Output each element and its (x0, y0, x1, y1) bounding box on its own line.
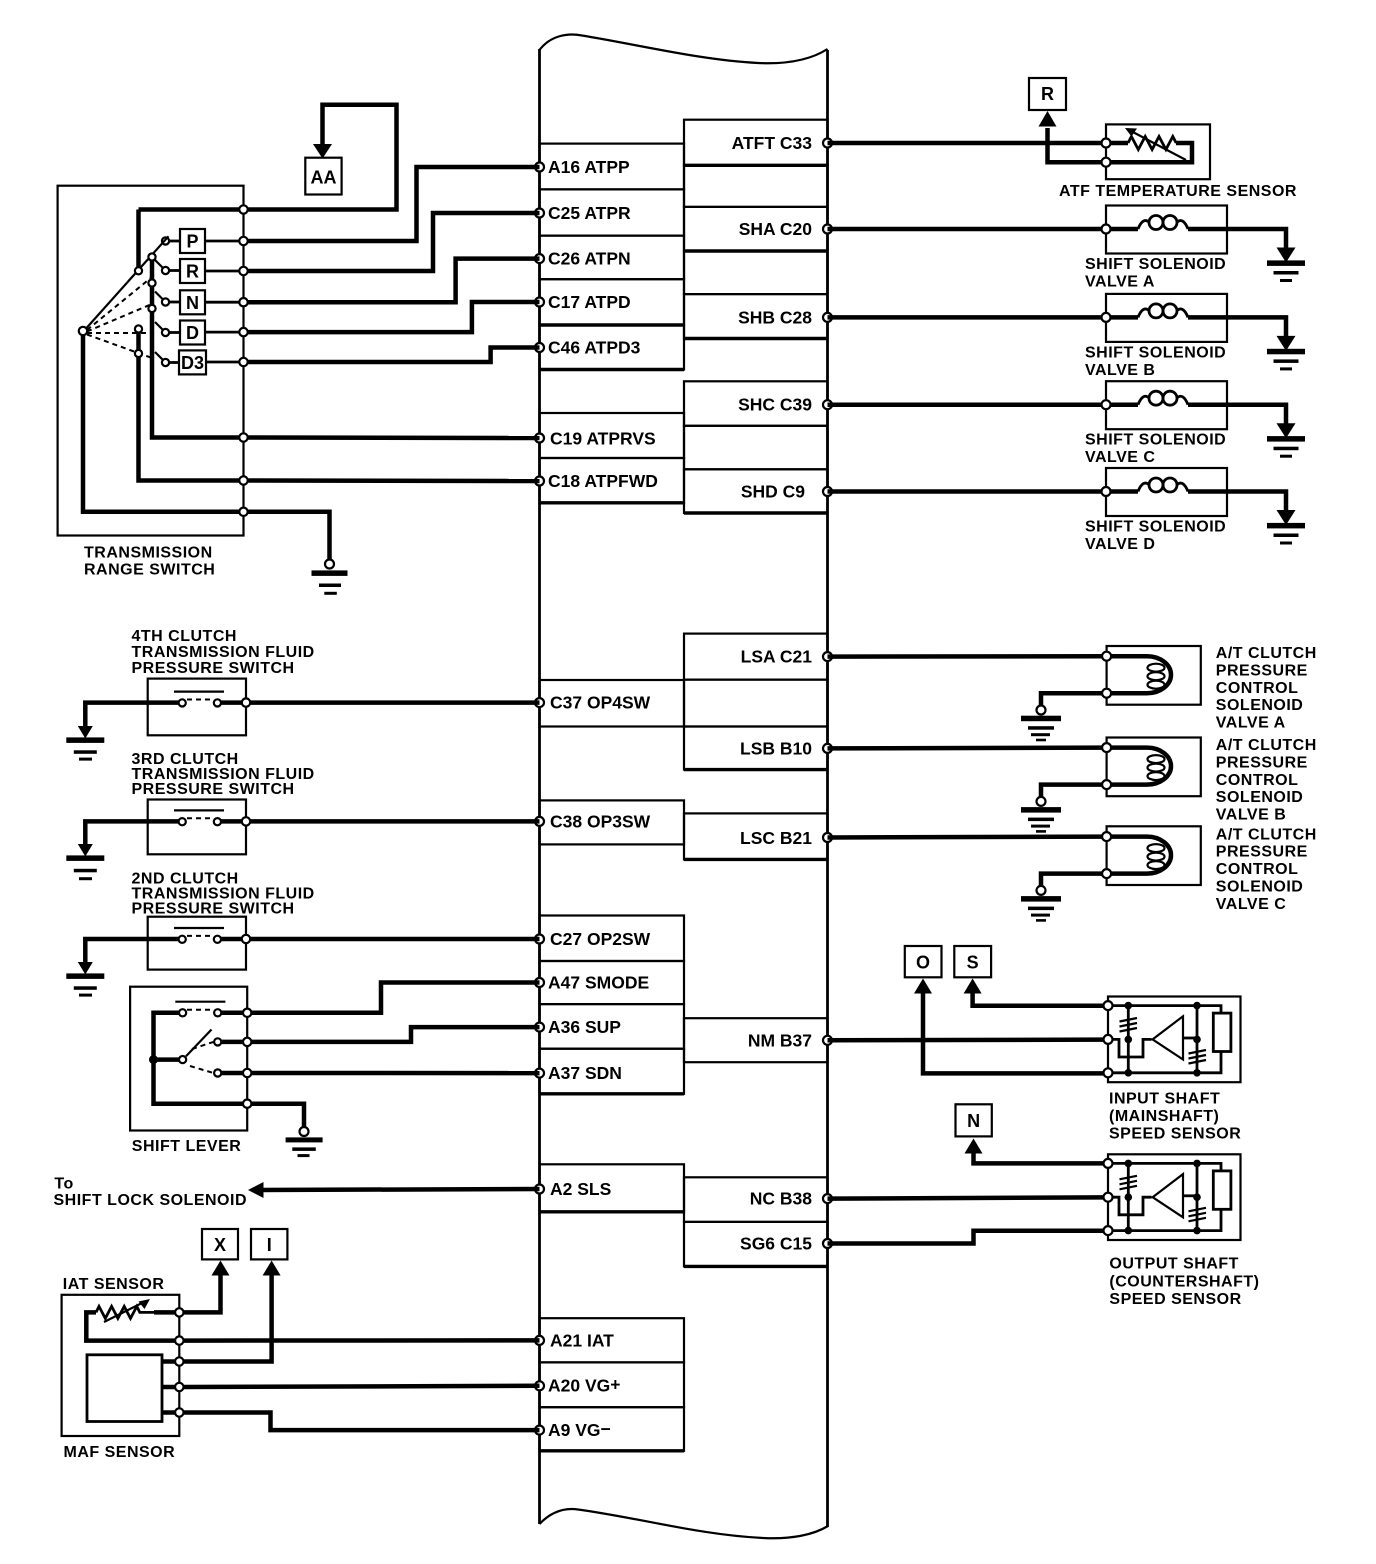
pin circle SG6 (823, 1239, 832, 1248)
contact circle N (162, 298, 169, 305)
ground 3rd switch (78, 844, 93, 857)
wire ECM torn top edge (540, 35, 828, 64)
4th clutch pressure switch box (148, 679, 246, 736)
coil valve D (1110, 489, 1138, 494)
node empty cell 4 (684, 680, 828, 727)
svg-text:C27 OP2SW: C27 OP2SW (550, 929, 651, 949)
IAT/MAF junction circles (175, 1308, 183, 1316)
3rd clutch switch contacts (148, 819, 179, 824)
coil A/T valve C (1110, 837, 1171, 874)
shift solenoid valve B box (1106, 294, 1227, 342)
wire to C18 ATPFWD (244, 478, 540, 483)
svg-text:A/T CLUTCH: A/T CLUTCH (1216, 826, 1317, 843)
PCM band (535, 35, 832, 1539)
node A47 SMODE cell (540, 961, 685, 1004)
node A20 VG+ cell (540, 1362, 685, 1407)
coil valve B (1110, 315, 1138, 320)
link ATPFWD vertical (135, 325, 142, 332)
svg-text:(COUNTERSHAFT): (COUNTERSHAFT) (1109, 1273, 1259, 1290)
svg-text:PRESSURE SWITCH: PRESSURE SWITCH (132, 781, 295, 798)
wire S arrow from input sensor top (973, 992, 1104, 1006)
wire A2 SLS to shift lock solenoid (258, 1189, 540, 1190)
svg-text:S: S (967, 953, 979, 973)
svg-text:IAT SENSOR: IAT SENSOR (63, 1276, 165, 1293)
wire TRS common to ground (244, 512, 330, 560)
ground valve C (1277, 423, 1296, 438)
node A21 IAT cell (540, 1318, 685, 1362)
node C19 ATPRVS cell (540, 413, 685, 458)
svg-text:SHIFT SOLENOID: SHIFT SOLENOID (1085, 432, 1226, 449)
ground A/T valve C (1037, 886, 1046, 895)
svg-text:D: D (186, 323, 199, 343)
pin circle A9 (535, 1426, 544, 1435)
svg-text:CONTROL: CONTROL (1216, 772, 1299, 789)
shift lever box (130, 987, 247, 1131)
ground A/T valve B (1037, 797, 1046, 806)
shift solenoid valve D box (1106, 468, 1227, 516)
switch box P (180, 229, 205, 253)
svg-text:SHIFT SOLENOID: SHIFT SOLENOID (1085, 519, 1226, 536)
svg-text:A36 SUP: A36 SUP (548, 1017, 621, 1037)
svg-text:RANGE SWITCH: RANGE SWITCH (84, 562, 215, 579)
wire LSA C21 (828, 654, 1108, 659)
wire A37 SDN (251, 1071, 539, 1076)
wire A/T valve B ground (1041, 785, 1102, 797)
IAT/MAF outer box (62, 1295, 180, 1436)
contact open-arm stubs (155, 260, 163, 268)
svg-text:SOLENOID: SOLENOID (1216, 879, 1304, 896)
ground A/T valve A (1037, 706, 1046, 715)
input shaft speed sensor (1104, 997, 1241, 1083)
wire ATFT C33 (828, 141, 1107, 146)
svg-text:SHB C28: SHB C28 (738, 307, 812, 327)
right components (828, 78, 1317, 1308)
2nd clutch pressure switch box (148, 917, 246, 970)
node SHC C39 cell (684, 381, 828, 426)
ATF thermistor zigzag (1128, 137, 1176, 150)
wire SHC C39 (828, 402, 1107, 407)
svg-text:C19 ATPRVS: C19 ATPRVS (550, 428, 656, 448)
node SHA C20 cell (684, 207, 828, 251)
pin circle A47 (535, 978, 544, 987)
svg-text:MAF SENSOR: MAF SENSOR (64, 1444, 176, 1461)
wire LSC B21 (828, 834, 1108, 839)
node C46 ATPD3 cell (540, 325, 685, 370)
svg-text:AA: AA (311, 168, 337, 188)
svg-text:PRESSURE: PRESSURE (1216, 844, 1308, 861)
svg-text:SHD C9: SHD C9 (741, 482, 805, 502)
svg-text:OUTPUT SHAFT: OUTPUT SHAFT (1109, 1256, 1239, 1273)
svg-text:VALVE C: VALVE C (1216, 896, 1286, 913)
pin circle C18 (535, 477, 544, 486)
svg-text:C25 ATPR: C25 ATPR (548, 203, 631, 223)
wire A36 SUP (251, 1027, 539, 1042)
wire A47 SMODE (251, 983, 539, 1013)
svg-text:SOLENOID: SOLENOID (1216, 697, 1304, 714)
svg-text:ATFT C33: ATFT C33 (732, 133, 813, 153)
wire D contact to C17 ATPD (244, 302, 540, 332)
svg-text:SPEED SENSOR: SPEED SENSOR (1109, 1126, 1241, 1143)
svg-text:A21 IAT: A21 IAT (550, 1330, 614, 1350)
node empty cell 2 (684, 251, 828, 294)
coil A/T valve A (1110, 656, 1171, 693)
left components (54, 105, 540, 1461)
svg-text:D3: D3 (181, 353, 204, 373)
ATF temperature sensor box (1106, 124, 1210, 179)
output shaft speed sensor (1104, 1154, 1241, 1240)
pin circle ATFT (823, 139, 832, 148)
svg-text:SHC C39: SHC C39 (738, 395, 812, 415)
node C18 ATPFWD cell (540, 458, 685, 503)
svg-text:VALVE A: VALVE A (1216, 715, 1286, 732)
svg-text:X: X (214, 1235, 226, 1255)
heavy scan lines on some cell borders (540, 165, 828, 1451)
wire 3rd switch to ground (85, 821, 147, 846)
wire N contact to C26 ATPN (244, 259, 540, 303)
arrowhead into AA (313, 144, 332, 159)
svg-text:VALVE B: VALVE B (1085, 362, 1155, 379)
svg-text:CONTROL: CONTROL (1216, 861, 1299, 878)
switch box D (180, 321, 205, 345)
svg-text:SHIFT LEVER: SHIFT LEVER (132, 1138, 242, 1155)
pin circle SHA (823, 225, 832, 234)
node ATFT C33 cell (684, 120, 828, 166)
wire ECM right edge (826, 50, 829, 1527)
svg-text:INPUT SHAFT: INPUT SHAFT (1109, 1091, 1220, 1108)
wire shift lever ground (251, 1104, 304, 1127)
svg-text:NC B38: NC B38 (750, 1189, 813, 1209)
pin circle C37 (535, 698, 544, 707)
wire A21 IAT (184, 1338, 540, 1343)
ground 2nd switch (78, 962, 93, 975)
switch arm solid to P (87, 236, 169, 328)
junction circles on TRS edge (239, 205, 247, 213)
pin circle LSB (823, 744, 832, 753)
pin circle A2 (535, 1185, 544, 1194)
arrowhead shift lock (248, 1182, 264, 1198)
pin circle A37 (535, 1069, 544, 1078)
svg-text:(MAINSHAFT): (MAINSHAFT) (1109, 1108, 1219, 1125)
terminal box S (954, 946, 991, 977)
wire 4th switch to ground (85, 703, 147, 728)
wire C38 OP3SW (250, 819, 540, 824)
shift solenoid valve A box (1106, 206, 1227, 254)
wire ECM torn bottom edge (540, 1509, 829, 1538)
svg-text:A47 SMODE: A47 SMODE (548, 973, 649, 993)
node A36 SUP cell (540, 1004, 685, 1049)
pin circle C46 (535, 343, 544, 352)
pin circle C19 (535, 434, 544, 443)
node NC B38 cell (684, 1177, 828, 1222)
svg-text:SG6 C15: SG6 C15 (740, 1234, 812, 1254)
svg-text:LSC B21: LSC B21 (740, 828, 812, 848)
ATF sensor loop and R arrow (1048, 128, 1193, 162)
node SHD C9 cell (684, 469, 828, 513)
svg-text:VALVE A: VALVE A (1085, 274, 1155, 291)
shift lever top contact row (179, 1009, 186, 1016)
contact circle R (162, 267, 169, 274)
pin circle SHD (823, 487, 832, 496)
node C17 ATPD cell (540, 279, 685, 325)
svg-text:O: O (916, 953, 930, 973)
terminal box R (1029, 78, 1066, 110)
node empty cell 3 (684, 426, 828, 470)
node SHB C28 cell (684, 294, 828, 338)
IAT loop wire (86, 1312, 179, 1340)
svg-text:C17 ATPD: C17 ATPD (548, 292, 631, 312)
wire I arrow (179, 1272, 271, 1362)
wire SHB C28 (828, 315, 1107, 320)
contact circle D3 (162, 359, 169, 366)
dashed arms (87, 275, 155, 331)
terminal box N (956, 1104, 992, 1136)
node C27 OP2SW cell (540, 916, 685, 962)
svg-text:N: N (186, 293, 199, 313)
ATF sensor circles (1102, 139, 1111, 148)
coil valve A (1110, 227, 1138, 232)
shift lever pivot (179, 1056, 186, 1063)
wire SHD C9 (828, 489, 1107, 494)
pin circle C26 (535, 254, 544, 263)
pin circle C27 (535, 935, 544, 944)
svg-text:A20 VG+: A20 VG+ (548, 1374, 620, 1395)
A/T clutch valve B box (1107, 738, 1201, 797)
node A2 SLS cell (540, 1164, 685, 1212)
switch box N (180, 290, 205, 314)
MAF sensor inner box (87, 1355, 162, 1422)
switch box R (180, 259, 205, 283)
IAT thermistor (96, 1306, 154, 1318)
node empty cell 1 (684, 165, 828, 207)
svg-text:SHIFT LOCK SOLENOID: SHIFT LOCK SOLENOID (54, 1192, 248, 1209)
wire LSB B10 (828, 745, 1108, 750)
wire AA loop (244, 105, 397, 210)
svg-text:CONTROL: CONTROL (1216, 680, 1299, 697)
wire AA junction into box (139, 207, 244, 212)
wire to C19 ATPRVS (244, 435, 540, 440)
svg-text:R: R (186, 262, 199, 282)
pin circle NM (823, 1036, 832, 1045)
svg-text:C18 ATPFWD: C18 ATPFWD (548, 471, 658, 491)
pin circle A21 (535, 1336, 544, 1345)
terminal box AA (305, 158, 341, 195)
pin circle C38 (535, 817, 544, 826)
ground TRS (325, 560, 334, 569)
junction circles on shift lever edge (243, 1009, 251, 1017)
2nd clutch switch contacts (148, 937, 179, 942)
svg-text:C46 ATPD3: C46 ATPD3 (548, 338, 641, 358)
svg-text:ATF TEMPERATURE SENSOR: ATF TEMPERATURE SENSOR (1059, 183, 1297, 200)
pin circle C25 (535, 209, 544, 218)
pin circle SHC (823, 400, 832, 409)
4th clutch switch contacts (148, 700, 179, 705)
ground valve D (1277, 510, 1296, 525)
node A9 VG- cell (540, 1407, 685, 1451)
transmission range switch box (58, 186, 244, 536)
svg-text:A2 SLS: A2 SLS (550, 1179, 611, 1199)
node NM B37 cell (684, 1018, 828, 1062)
wire A/T valve C ground (1041, 874, 1102, 886)
terminal box O (905, 946, 942, 977)
switch box D3 (179, 350, 206, 374)
wire pivot to ground row (83, 335, 244, 512)
svg-text:C37 OP4SW: C37 OP4SW (550, 693, 651, 713)
link ATPRVS vertical (148, 253, 155, 260)
node C26 ATPN cell (540, 236, 685, 280)
terminal box X (202, 1229, 238, 1259)
wire A9 VG- (184, 1413, 540, 1431)
wire NC B38 (828, 1197, 1104, 1198)
svg-text:TRANSMISSION: TRANSMISSION (84, 545, 213, 562)
wire R contact to C25 ATPR (244, 213, 540, 271)
pin circle LSA (823, 652, 832, 661)
svg-text:C38 OP3SW: C38 OP3SW (550, 811, 651, 831)
svg-text:VALVE B: VALVE B (1216, 807, 1286, 824)
wire N arrow from output sensor top (974, 1152, 1104, 1163)
link AA vertical (136, 210, 141, 268)
svg-text:P: P (186, 232, 198, 252)
wire X arrow (179, 1272, 220, 1312)
wire A20 VG+ (184, 1386, 540, 1387)
shift solenoid valve C box (1106, 381, 1227, 429)
svg-text:SPEED SENSOR: SPEED SENSOR (1109, 1291, 1241, 1308)
wire D3 contact to C46 ATPD3 (244, 348, 540, 363)
svg-text:A/T CLUTCH: A/T CLUTCH (1216, 737, 1317, 754)
shift lever middle contact (214, 1038, 221, 1045)
contact circle D (162, 329, 169, 336)
svg-text:To: To (54, 1175, 73, 1192)
A/T clutch valve A box (1107, 646, 1201, 705)
svg-text:PRESSURE SWITCH: PRESSURE SWITCH (132, 660, 295, 677)
pin circle NC (823, 1194, 832, 1203)
ground valve B (1277, 336, 1296, 351)
svg-text:LSB B10: LSB B10 (740, 739, 812, 759)
svg-text:4TH CLUTCH: 4TH CLUTCH (132, 628, 237, 645)
node A16 ATPP cell (540, 144, 685, 190)
wire SHA C20 (828, 227, 1107, 232)
pin circle A20 (535, 1381, 544, 1390)
pin circle A36 (535, 1023, 544, 1032)
node C37 OP4SW cell (540, 680, 685, 727)
svg-text:R: R (1041, 84, 1054, 104)
svg-text:SOLENOID: SOLENOID (1216, 789, 1304, 806)
svg-text:TRANSMISSION FLUID: TRANSMISSION FLUID (132, 644, 315, 661)
shift lever common wire (154, 1013, 244, 1104)
wire NM B37 (828, 1037, 1104, 1042)
svg-text:A16 ATPP: A16 ATPP (548, 157, 630, 177)
svg-text:SHA C20: SHA C20 (739, 219, 813, 239)
svg-text:PRESSURE: PRESSURE (1216, 662, 1308, 679)
svg-text:A37 SDN: A37 SDN (548, 1063, 622, 1083)
node SG6 C15 cell (684, 1222, 828, 1267)
wire SG6 C15 (828, 1231, 1104, 1244)
pin circle A16 (535, 163, 544, 172)
svg-text:C26 ATPN: C26 ATPN (548, 249, 631, 269)
contact stubs P..D3 (169, 240, 180, 243)
A/T clutch valve C box (1107, 826, 1201, 885)
ground valve A (1277, 248, 1296, 263)
terminal box I (251, 1229, 287, 1259)
svg-text:N: N (967, 1111, 980, 1131)
shift lever arm (186, 1030, 212, 1057)
svg-text:I: I (267, 1235, 272, 1255)
MAF stub wires (162, 1359, 179, 1364)
pivot circle (79, 327, 87, 335)
svg-text:A9 VG−: A9 VG− (548, 1419, 611, 1440)
svg-text:VALVE C: VALVE C (1085, 449, 1155, 466)
node LSB B10 cell (684, 727, 828, 770)
svg-text:PRESSURE: PRESSURE (1216, 754, 1308, 771)
svg-text:NM B37: NM B37 (748, 1031, 812, 1051)
wire 2nd switch to ground (85, 939, 147, 964)
wire A/T valve A ground (1041, 693, 1102, 705)
wire P contact to A16 ATPP (244, 167, 540, 241)
contact circle P (162, 237, 169, 244)
node LSA C21 cell (684, 634, 828, 680)
svg-text:SHIFT SOLENOID: SHIFT SOLENOID (1085, 256, 1226, 273)
svg-text:A/T CLUTCH: A/T CLUTCH (1216, 645, 1317, 662)
node C25 ATPR cell (540, 189, 685, 235)
pin circle SHB (823, 313, 832, 322)
wire C37 OP4SW (250, 700, 540, 705)
shift lever lower contact (214, 1069, 221, 1076)
svg-text:PRESSURE SWITCH: PRESSURE SWITCH (132, 901, 295, 918)
pin circle LSC (823, 833, 832, 842)
ground 4th switch (78, 726, 93, 739)
node A37 SDN cell (540, 1049, 685, 1094)
svg-text:VALVE D: VALVE D (1085, 536, 1155, 553)
svg-text:SHIFT SOLENOID: SHIFT SOLENOID (1085, 344, 1226, 361)
node LSC B21 cell (684, 813, 828, 859)
node C38 OP3SW cell (540, 800, 685, 844)
wire O arrow from input sensor bottom (923, 992, 1104, 1073)
ground shift lever (300, 1127, 309, 1136)
coil A/T valve B (1110, 748, 1171, 785)
wire C27 OP2SW (250, 937, 540, 942)
svg-text:LSA C21: LSA C21 (741, 647, 813, 667)
coil valve C (1110, 402, 1138, 407)
wire ECM left edge (538, 49, 541, 1524)
3rd clutch pressure switch box (148, 800, 246, 855)
pin circle C17 (535, 298, 544, 307)
